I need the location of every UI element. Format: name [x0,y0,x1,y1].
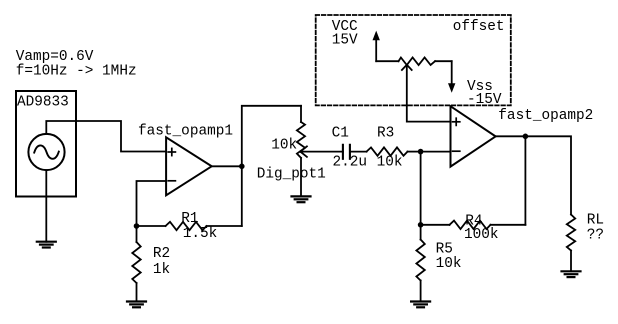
op-amp1 plus pin mark [168,148,175,155]
label R5 [436,241,453,257]
resistor R2 [132,226,140,301]
value 10k (R5) [436,256,462,272]
power VCC arrow [373,31,380,62]
label Dig_pot1 [257,166,326,182]
op-amp U1 fast_opamp1 [166,137,212,195]
wire op-amp2 output [496,135,526,137]
wire output riser R1 to pot top [242,106,301,226]
svg-text:??: ?? [587,227,604,243]
svg-text:Dig_pot1: Dig_pot1 [257,166,326,182]
svg-text:R2: R2 [153,246,170,262]
source AD9833 bounding box [16,91,76,197]
wire op-amp1 output [212,165,242,167]
value 10k (R3) [377,155,403,171]
ground below R5 [411,302,430,308]
svg-text:RL: RL [587,212,604,228]
svg-text:1.5k: 1.5k [183,226,218,242]
junction node R4/R5 [418,222,424,228]
svg-text:100k: 100k [464,227,499,243]
resistor RL [567,215,575,272]
svg-text:Vamp=0.6V: Vamp=0.6V [16,49,94,65]
power Vss arrow [448,61,455,93]
svg-text:1k: 1k [153,262,170,278]
potentiometer Dig_pot1 [297,106,305,197]
resistor R3 [367,147,408,155]
power Vss label [467,79,493,95]
svg-text:10k: 10k [377,155,403,171]
capacitor C1 [343,145,350,159]
pot wiper arrow [300,146,307,157]
wire R4 right riser to output [524,136,526,225]
label offset [453,19,505,35]
op-amp2 minus pin mark [453,150,460,152]
offset block dashed outline [316,15,511,105]
value -15V [467,92,502,108]
annotation Vamp=0.6V [16,49,94,65]
ground below AD9833 [37,242,56,248]
op-amp1 minus pin mark [168,180,175,182]
wire offset wiper to op-amp2 noninverting input [407,65,451,122]
value 1k [153,262,170,278]
wire node to op-amp2 inverting input [421,151,451,153]
wire op-amp1 inverting input to feedback node [137,181,167,226]
label R2 [153,246,170,262]
value 100k [464,227,499,243]
svg-text:R5: R5 [436,241,453,257]
resistor R1 [137,222,242,230]
wire output to RL [525,136,571,214]
svg-text:offset: offset [453,19,505,35]
potentiometer offset pot [376,58,452,66]
op-amp U2 fast_opamp2 [451,106,496,166]
value 2.2u [333,155,368,171]
junction node op-amp1 output [239,164,245,170]
wire R3 to inverting node [408,151,421,153]
svg-text:R3: R3 [377,125,394,141]
label fast_opamp1 [138,124,233,140]
wire source bottom to ground [45,170,47,242]
svg-text:2.2u: 2.2u [333,155,368,171]
label R3 [377,125,394,141]
value 1.5k [183,226,218,242]
label RL [587,212,604,228]
wire wiper to C1 [300,151,343,153]
value 10k (Dig_pot1) [271,138,297,154]
label AD9833 [17,95,69,111]
offset pot wiper arrow [402,65,412,70]
svg-text:C1: C1 [332,125,349,141]
junction node op-amp2 inverting input [418,149,424,155]
svg-text:fast_opamp2: fast_opamp2 [498,108,593,124]
junction node op-amp2 output [523,134,529,140]
svg-text:fast_opamp1: fast_opamp1 [138,124,233,140]
value ?? [587,227,604,243]
resistor R4 [421,221,526,229]
ground below R2 [127,302,146,308]
label fast_opamp2 [498,108,593,124]
ground below RL [562,271,581,277]
annotation f=10Hz -> 1MHz [16,64,137,80]
svg-text:R1: R1 [181,211,198,227]
ground below Dig_pot1 [292,196,311,202]
wire source output to op-amp1 noninverting input [46,121,166,152]
wire inverting node down to R4/R5 node [420,152,422,225]
resistor R5 [416,225,424,302]
power VCC label [332,19,358,35]
svg-text:f=10Hz -> 1MHz: f=10Hz -> 1MHz [16,64,137,80]
svg-text:10k: 10k [271,138,297,154]
junction node feedback1 [134,223,140,229]
svg-text:-15V: -15V [467,92,502,108]
svg-text:15V: 15V [332,33,358,49]
wire C1 to R3 [350,151,367,153]
sine source symbol [28,134,64,170]
label C1 [332,125,349,141]
svg-text:10k: 10k [436,256,462,272]
op-amp2 plus pin mark [453,118,460,125]
svg-text:AD9833: AD9833 [17,95,69,111]
value 15V [332,33,358,49]
label R1 [181,211,198,227]
label R4 [465,213,482,229]
